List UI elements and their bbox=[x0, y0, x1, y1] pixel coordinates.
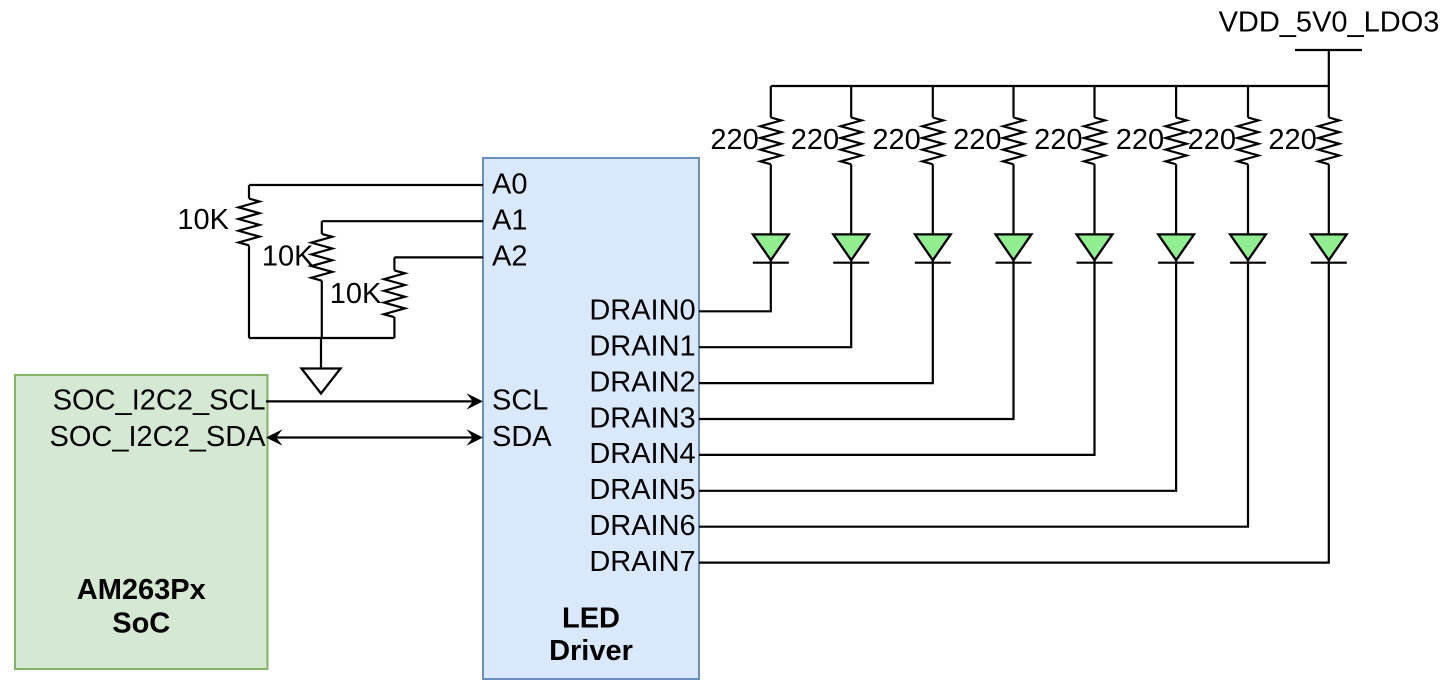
svg-text:220: 220 bbox=[791, 124, 839, 156]
svg-text:DRAIN4: DRAIN4 bbox=[589, 438, 695, 470]
resistor R4 220 bbox=[1012, 86, 1014, 118]
svg-text:220: 220 bbox=[872, 124, 920, 156]
LED driver block U2 bbox=[483, 158, 699, 679]
wire R8 to LED D8 bbox=[1328, 164, 1330, 234]
power rail VDD_5V0_LDO3 bar bbox=[1295, 49, 1362, 51]
LED D8 bbox=[1311, 234, 1347, 260]
wire ground bus bbox=[249, 337, 394, 339]
wire R6 to LED D6 bbox=[1175, 164, 1177, 234]
svg-text:DRAIN6: DRAIN6 bbox=[589, 510, 695, 542]
arrowhead SDA at driver bbox=[467, 429, 484, 445]
LED D5 bbox=[1077, 234, 1113, 260]
LED D6 bbox=[1158, 234, 1194, 260]
svg-text:SoC: SoC bbox=[112, 608, 170, 640]
svg-text:LED: LED bbox=[562, 603, 620, 635]
svg-text:220: 220 bbox=[953, 124, 1001, 156]
wire R5 to LED D5 bbox=[1093, 164, 1095, 234]
wire DRAIN7 from LED D8 to driver pin bbox=[699, 260, 1329, 562]
wire A1 to driver bbox=[322, 220, 483, 222]
wire R4 to LED D4 bbox=[1012, 164, 1014, 234]
arrowhead SCL at driver bbox=[467, 393, 484, 409]
svg-text:220: 220 bbox=[1188, 124, 1236, 156]
wire DRAIN2 from LED D3 to driver pin bbox=[699, 260, 933, 383]
resistor R10 10K bbox=[321, 221, 323, 234]
resistor R8 220 bbox=[1328, 86, 1330, 118]
SoC block U1 (AM263Px SoC) bbox=[15, 375, 268, 669]
svg-text:Driver: Driver bbox=[549, 635, 633, 667]
wire R3 to LED D3 bbox=[932, 164, 934, 234]
svg-text:DRAIN2: DRAIN2 bbox=[589, 366, 695, 398]
wire R1 to LED D1 bbox=[770, 164, 772, 234]
wire VDD stem bbox=[1328, 50, 1330, 86]
wire R7 to LED D7 bbox=[1247, 164, 1249, 234]
svg-text:220: 220 bbox=[710, 124, 758, 156]
resistor R1 220 bbox=[770, 86, 772, 118]
wire DRAIN6 from LED D7 to driver pin bbox=[699, 260, 1248, 527]
LED D7 bbox=[1230, 234, 1266, 260]
wire A0 to driver bbox=[249, 184, 483, 186]
LED D2 bbox=[833, 234, 869, 260]
wire A2 to driver bbox=[394, 256, 483, 258]
wire R2 to LED D2 bbox=[850, 164, 852, 234]
wire DRAIN0 from LED D1 to driver pin bbox=[699, 260, 771, 311]
svg-text:10K: 10K bbox=[177, 204, 229, 236]
svg-text:VDD_5V0_LDO3: VDD_5V0_LDO3 bbox=[1219, 6, 1440, 38]
resistor R3 220 bbox=[932, 86, 934, 118]
wire top bus bbox=[771, 85, 1329, 87]
svg-text:SCL: SCL bbox=[492, 385, 548, 417]
wire SDA bbox=[275, 436, 474, 438]
LED D3 bbox=[915, 234, 951, 260]
svg-text:10K: 10K bbox=[262, 240, 314, 272]
svg-text:220: 220 bbox=[1268, 124, 1316, 156]
wire DRAIN1 from LED D2 to driver pin bbox=[699, 260, 851, 347]
svg-text:DRAIN5: DRAIN5 bbox=[589, 474, 695, 506]
resistor R6 220 bbox=[1175, 86, 1177, 118]
LED D4 bbox=[996, 234, 1032, 260]
wire DRAIN3 from LED D4 to driver pin bbox=[699, 260, 1014, 419]
svg-text:DRAIN3: DRAIN3 bbox=[589, 402, 695, 434]
svg-text:AM263Px: AM263Px bbox=[77, 574, 206, 606]
svg-text:A0: A0 bbox=[492, 168, 527, 200]
wire SCL bbox=[266, 400, 474, 402]
resistor R5 220 bbox=[1093, 86, 1095, 118]
svg-text:220: 220 bbox=[1116, 124, 1164, 156]
ground symbol bbox=[302, 369, 341, 394]
arrowhead SDA at SoC bbox=[266, 429, 283, 445]
svg-text:A2: A2 bbox=[492, 241, 527, 273]
svg-text:SOC_I2C2_SCL: SOC_I2C2_SCL bbox=[53, 385, 266, 417]
LED D1 bbox=[753, 234, 789, 260]
svg-text:220: 220 bbox=[1034, 124, 1082, 156]
resistor R9 10K bbox=[248, 185, 250, 199]
svg-text:SDA: SDA bbox=[492, 421, 552, 453]
svg-text:DRAIN1: DRAIN1 bbox=[589, 331, 695, 363]
resistor R7 220 bbox=[1247, 86, 1249, 118]
svg-text:A1: A1 bbox=[492, 205, 527, 237]
svg-text:SOC_I2C2_SDA: SOC_I2C2_SDA bbox=[50, 421, 267, 453]
wire ground stem bbox=[320, 338, 322, 369]
resistor R2 220 bbox=[850, 86, 852, 118]
svg-text:DRAIN0: DRAIN0 bbox=[589, 295, 695, 327]
wire DRAIN5 from LED D6 to driver pin bbox=[699, 260, 1176, 491]
svg-text:DRAIN7: DRAIN7 bbox=[589, 546, 695, 578]
svg-text:10K: 10K bbox=[330, 278, 382, 310]
resistor R11 10K bbox=[393, 257, 395, 270]
wire DRAIN4 from LED D5 to driver pin bbox=[699, 260, 1095, 455]
